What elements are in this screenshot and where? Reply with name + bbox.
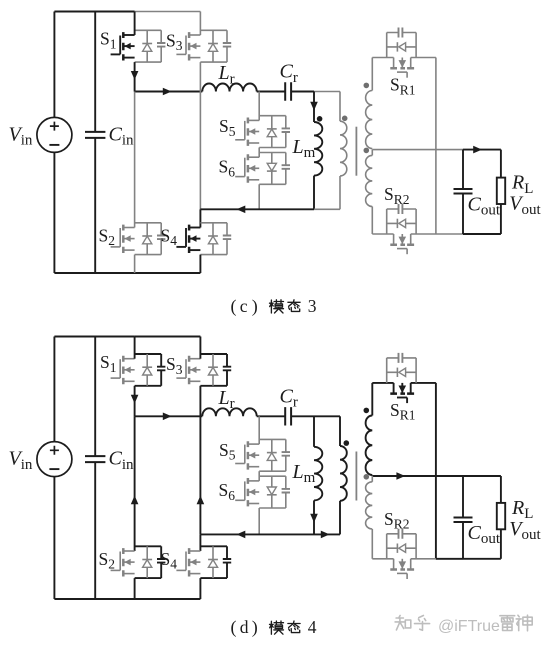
arrow current to tank [163, 413, 172, 421]
arrow leg B up [197, 496, 205, 505]
capacitor C_in [85, 12, 105, 274]
label L_m [292, 136, 316, 161]
resistor R_L [497, 476, 505, 559]
wire S3 source / leg B [199, 62, 201, 209]
wire L_m bottom [313, 176, 315, 210]
inductor L_r [202, 408, 256, 416]
transformer secondary lower winding [366, 150, 373, 207]
wire bottom rail [54, 598, 200, 600]
label C_out [468, 194, 501, 219]
wire C_r to L_m node [291, 91, 314, 93]
caption figure (c) [231, 296, 317, 317]
wire top rail [54, 336, 200, 338]
transistor S6 [235, 153, 290, 185]
wire S3 source / leg B [199, 386, 201, 535]
wire S3 drain [199, 12, 201, 36]
wire secondary top terminal [371, 383, 373, 416]
wire S5-S6 link [258, 148, 260, 158]
arrow return current [237, 206, 246, 214]
svg-text:d: d [240, 617, 249, 637]
label S1 [100, 29, 116, 52]
wire left input column [53, 12, 55, 274]
wire S2 source [134, 255, 136, 273]
wire S2 source [134, 578, 136, 599]
capacitor C_out [454, 476, 473, 559]
arrow leg A up [131, 496, 139, 505]
wire L_r to C_r [257, 415, 286, 417]
wire bottom rail [54, 272, 200, 274]
node A horizontal wire [135, 415, 203, 417]
label S1 [100, 352, 116, 375]
transistor S2 [111, 223, 166, 255]
label S4 [161, 225, 178, 248]
wire S5-S6 link [258, 471, 260, 481]
wire primary bottom [339, 176, 341, 209]
transistor S5 [235, 439, 290, 471]
polarity dot center tap [364, 148, 370, 154]
voltage source V_in [37, 117, 72, 152]
polarity dot primary [342, 116, 348, 122]
transistor S4 [176, 223, 231, 255]
wire return rail [200, 533, 340, 535]
transistor S6 [235, 476, 290, 508]
label C_in [109, 448, 135, 473]
arrow current to tank [163, 88, 172, 96]
wire S1 source to node A [134, 386, 136, 417]
watermark zhihu [395, 615, 532, 635]
wire secondary top terminal [371, 58, 373, 91]
transformer primary winding [340, 446, 347, 501]
wire output bottom rail [463, 233, 501, 235]
wire S3 drain [199, 337, 201, 359]
arrow return current [237, 531, 246, 539]
transistor S_R1 [387, 353, 416, 403]
wire SR1 to output minus [435, 58, 437, 235]
label S2 [99, 225, 115, 248]
transformer secondary upper winding [366, 416, 373, 476]
wire S5 branch top [258, 416, 260, 444]
wire primary top [339, 416, 341, 446]
wire SR2 row [372, 233, 463, 235]
arrow output current [473, 146, 482, 154]
voltage source V_in [37, 442, 72, 477]
transistor S3 [176, 30, 231, 62]
caption figure (d) [231, 617, 317, 638]
label C_r [280, 386, 298, 411]
wire primary top [339, 92, 341, 122]
label C_r [280, 61, 298, 86]
arrow current into node A [131, 71, 139, 80]
transistor S1 [111, 30, 166, 62]
label V_out [509, 518, 541, 543]
label V_in [9, 123, 33, 148]
wire secondary bottom terminal [371, 529, 373, 559]
wire SR1 row [372, 57, 436, 59]
svg-text:4: 4 [308, 617, 317, 637]
wire leg B to S4 [199, 534, 201, 551]
transistor S3 [176, 354, 231, 386]
wire return rail [200, 208, 340, 210]
transistor S_R1 [387, 28, 416, 78]
wire SR2 row [372, 558, 463, 560]
wire S5 branch top [258, 92, 260, 121]
label L_r [218, 387, 235, 412]
inductor L_m winding [314, 122, 322, 176]
label S5 [219, 116, 236, 139]
wire L_r to C_r [257, 91, 286, 93]
label S_R1 [390, 75, 416, 98]
polarity dot secondary top [364, 83, 370, 89]
wire L_m bottom [313, 500, 315, 534]
wire S6 to return rail [258, 508, 260, 534]
label S_R1 [390, 400, 416, 423]
arrow output current [396, 472, 405, 480]
arrow into L_m [310, 102, 318, 111]
wire S4 source [199, 578, 201, 599]
transformer secondary upper winding [366, 91, 373, 149]
wire S1 drain [134, 337, 136, 359]
polarity dot primary [344, 440, 350, 446]
transistor S_R2 [387, 204, 416, 254]
svg-text:@iFTrue: @iFTrue [438, 618, 500, 635]
wire center tap output [372, 149, 501, 151]
label V_in [9, 448, 33, 473]
label L_m [292, 461, 316, 486]
wire leg A lower [134, 92, 136, 228]
wire S4 source [199, 255, 201, 273]
wire primary bottom [339, 501, 341, 535]
capacitor C_r [285, 82, 291, 100]
arrow L_m down [310, 514, 318, 523]
label V_out [509, 193, 541, 218]
label C_in [109, 124, 135, 149]
wire S1 source to node A [134, 62, 136, 91]
label R_L [511, 497, 533, 522]
wire leg B to S4 [199, 209, 201, 227]
label S6 [219, 480, 236, 503]
wire leg A lower [134, 416, 136, 551]
svg-text:3: 3 [308, 296, 317, 316]
wire output bottom rail [436, 558, 501, 560]
wire SR1 row [372, 382, 436, 384]
label L_r [218, 62, 235, 87]
svg-text:(: ( [231, 296, 237, 317]
capacitor C_out [454, 150, 473, 234]
wire L_m top [313, 416, 315, 447]
label S6 [219, 157, 236, 180]
wire SR1 to output minus [435, 383, 437, 559]
label S4 [161, 549, 178, 572]
capacitor C_in [85, 337, 105, 600]
wire L_m top [313, 92, 315, 123]
polarity dot L_m [317, 116, 323, 122]
svg-text:): ) [252, 617, 258, 638]
transformer core [355, 127, 357, 176]
wire center tap output [372, 475, 501, 477]
transformer primary winding [340, 121, 347, 176]
transistor S2 [111, 546, 166, 578]
wire L_m node to primary [314, 91, 340, 93]
label S3 [166, 354, 183, 377]
resistor R_L [497, 150, 505, 234]
label R_L [511, 172, 533, 197]
wire L_m node to primary [314, 415, 340, 417]
inductor L_m winding [314, 447, 322, 501]
polarity dot secondary top [364, 408, 370, 414]
transistor S5 [235, 116, 290, 148]
transistor S1 [111, 354, 166, 386]
label S2 [99, 549, 115, 572]
svg-text:(: ( [231, 617, 237, 638]
wire top rail [54, 11, 200, 13]
label S_R2 [384, 509, 410, 532]
label C_out [468, 522, 501, 547]
node A horizontal wire [135, 91, 203, 93]
polarity dot center tap [364, 474, 370, 480]
wire left input column [53, 337, 55, 600]
transistor S4 [176, 546, 231, 578]
label S5 [219, 440, 236, 463]
wire C_r to L_m node [291, 415, 314, 417]
transformer secondary lower winding [366, 476, 373, 529]
capacitor C_r [285, 407, 291, 425]
label S3 [166, 30, 183, 53]
wire secondary bottom terminal [371, 207, 373, 235]
arrow current into node A [131, 395, 139, 404]
label S_R2 [384, 184, 410, 207]
inductor L_r [202, 84, 256, 92]
wire S1 drain [134, 12, 136, 36]
transformer core [355, 452, 357, 501]
svg-text:c: c [240, 296, 248, 316]
wire S6 to return rail [258, 184, 260, 209]
svg-text:): ) [252, 296, 258, 317]
transistor S_R2 [387, 529, 416, 579]
arrow into primary bottom [321, 531, 330, 539]
